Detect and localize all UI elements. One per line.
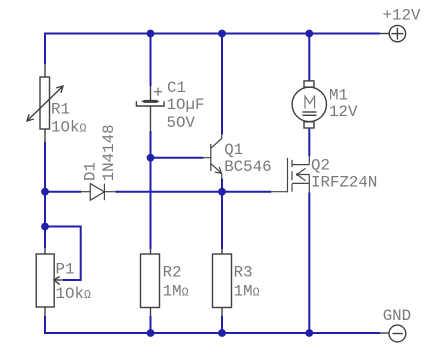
mosfet Q2 bbox=[271, 156, 309, 192]
svg-text:Q2: Q2 bbox=[311, 157, 330, 175]
junction bottom R3 bbox=[218, 329, 226, 337]
wire top rail bbox=[45, 33, 380, 35]
wire motor branch bbox=[308, 34, 310, 334]
svg-text:5OV: 5OV bbox=[167, 114, 196, 132]
junction bottom Q2 source bbox=[305, 329, 313, 337]
svg-text:IRFZ24N: IRFZ24N bbox=[311, 174, 377, 192]
wire Q1 collector bbox=[221, 34, 223, 135]
svg-text:C1: C1 bbox=[167, 79, 186, 97]
diode D1 bbox=[81, 184, 115, 201]
svg-text:1N4148: 1N4148 bbox=[100, 124, 118, 181]
svg-text:12V: 12V bbox=[329, 103, 358, 121]
svg-text:R3: R3 bbox=[234, 264, 253, 282]
label M inside motor bbox=[305, 96, 315, 108]
resistor R1 bbox=[27, 64, 63, 142]
resistor R3 bbox=[213, 249, 232, 316]
svg-text:R1: R1 bbox=[51, 101, 70, 119]
svg-text:R2: R2 bbox=[163, 264, 182, 282]
wire C1 branch bbox=[150, 34, 152, 334]
wire gate net bbox=[45, 191, 271, 193]
wire P1 wiper net bbox=[45, 227, 81, 281]
motor M1 bbox=[292, 81, 326, 128]
capacitor C1 bbox=[136, 86, 164, 131]
junction left gate node bbox=[41, 188, 49, 196]
junction emitter gate node bbox=[218, 188, 226, 196]
junction top C1 bbox=[147, 30, 155, 38]
power +12V terminal bbox=[380, 25, 406, 41]
svg-text:P1: P1 bbox=[56, 260, 75, 278]
ground GND terminal bbox=[380, 325, 406, 342]
junction wiper node bbox=[41, 223, 49, 231]
junction bottom R2 bbox=[147, 329, 155, 337]
label C1 plus bbox=[154, 88, 162, 96]
svg-text:GND: GND bbox=[383, 307, 411, 325]
junction C1 base node bbox=[147, 154, 155, 162]
svg-text:BC546: BC546 bbox=[224, 158, 271, 176]
transistor Q1 bbox=[204, 135, 222, 179]
junction top motor bbox=[305, 30, 313, 38]
svg-text:1OµF: 1OµF bbox=[167, 96, 205, 114]
resistor R2 bbox=[141, 249, 160, 316]
svg-text:Q1: Q1 bbox=[224, 141, 243, 159]
svg-text:+12V: +12V bbox=[383, 7, 421, 25]
junction top Q1 collector bbox=[218, 30, 226, 38]
potentiometer P1 bbox=[36, 248, 63, 316]
wire Q1 emitter to R3 bbox=[221, 179, 223, 334]
svg-text:D1: D1 bbox=[81, 162, 99, 181]
wire base net bbox=[151, 157, 204, 159]
wire left rail bbox=[45, 33, 380, 334]
